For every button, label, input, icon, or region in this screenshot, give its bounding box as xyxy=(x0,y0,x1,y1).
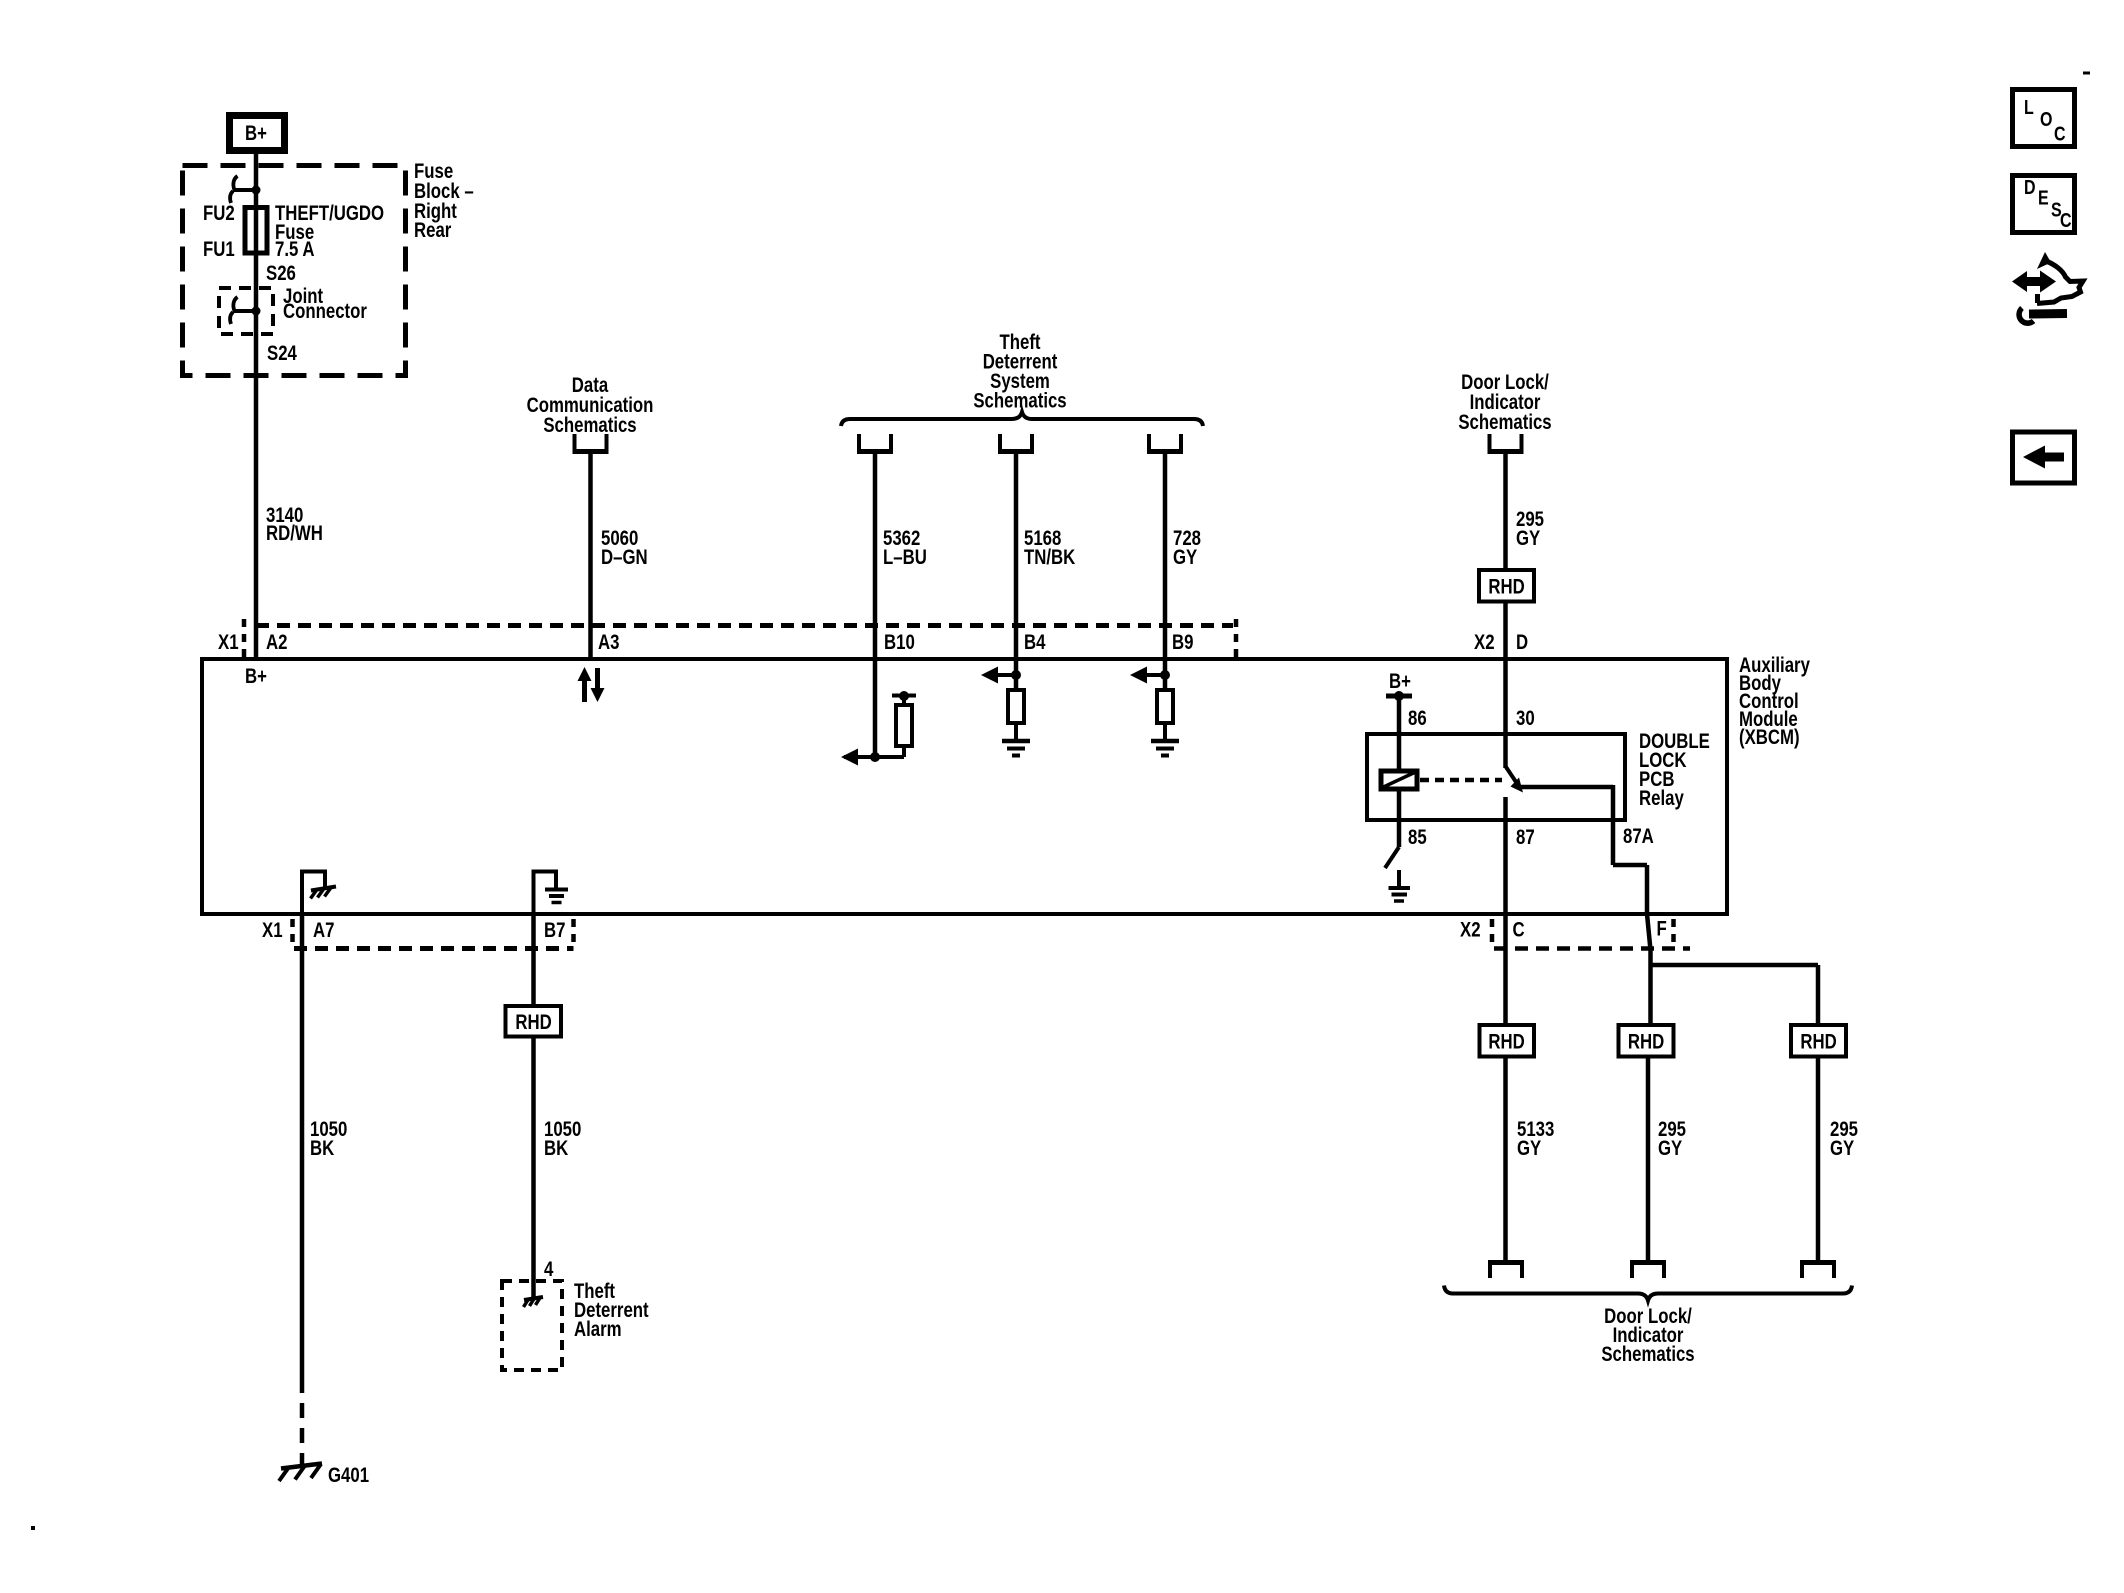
svg-text:A7: A7 xyxy=(313,919,334,942)
svg-text:RHD: RHD xyxy=(1488,1031,1524,1054)
svg-text:GY: GY xyxy=(1173,546,1198,569)
svg-text:Relay: Relay xyxy=(1639,787,1684,810)
svg-text:85: 85 xyxy=(1408,826,1427,849)
svg-text:Schematics: Schematics xyxy=(1601,1343,1694,1366)
svg-text:TN/BK: TN/BK xyxy=(1024,546,1076,569)
svg-text:RHD: RHD xyxy=(1628,1031,1664,1054)
svg-text:X1: X1 xyxy=(218,631,239,654)
svg-text:A3: A3 xyxy=(598,631,619,654)
svg-text:X2: X2 xyxy=(1474,631,1495,654)
svg-text:87A: 87A xyxy=(1623,825,1654,848)
svg-text:Schematics: Schematics xyxy=(543,414,636,437)
svg-text:O: O xyxy=(2040,108,2052,130)
svg-text:L–BU: L–BU xyxy=(883,546,927,569)
svg-text:FU1: FU1 xyxy=(203,238,235,261)
svg-text:F: F xyxy=(1657,918,1667,941)
svg-text:FU2: FU2 xyxy=(203,202,235,225)
svg-text:X1: X1 xyxy=(262,919,283,942)
svg-text:C: C xyxy=(1513,919,1525,942)
svg-text:Connector: Connector xyxy=(283,300,367,323)
svg-text:GY: GY xyxy=(1517,1137,1542,1160)
svg-text:RHD: RHD xyxy=(515,1011,551,1034)
svg-text:A2: A2 xyxy=(266,631,287,654)
svg-text:B10: B10 xyxy=(884,631,915,654)
svg-text:RD/WH: RD/WH xyxy=(266,522,323,545)
svg-text:GY: GY xyxy=(1516,527,1541,550)
svg-text:S24: S24 xyxy=(267,342,297,365)
svg-text:B+: B+ xyxy=(245,665,267,688)
svg-text:G401: G401 xyxy=(328,1464,369,1487)
svg-text:D: D xyxy=(1516,631,1528,654)
svg-text:Schematics: Schematics xyxy=(1458,411,1551,434)
svg-text:L: L xyxy=(2024,96,2034,118)
svg-text:D–GN: D–GN xyxy=(601,546,648,569)
svg-text:86: 86 xyxy=(1408,707,1427,730)
svg-text:B7: B7 xyxy=(544,919,565,942)
svg-text:BK: BK xyxy=(544,1137,568,1160)
svg-text:E: E xyxy=(2038,187,2049,209)
svg-text:B+: B+ xyxy=(245,122,267,145)
svg-text:C: C xyxy=(2060,209,2072,231)
svg-text:D: D xyxy=(2024,176,2036,198)
svg-text:B9: B9 xyxy=(1172,631,1193,654)
svg-text:(XBCM): (XBCM) xyxy=(1739,726,1800,749)
svg-text:B4: B4 xyxy=(1024,631,1046,654)
svg-text:GY: GY xyxy=(1658,1137,1683,1160)
svg-text:RHD: RHD xyxy=(1488,576,1524,599)
svg-text:GY: GY xyxy=(1830,1137,1855,1160)
svg-text:7.5 A: 7.5 A xyxy=(275,238,315,261)
svg-text:RHD: RHD xyxy=(1800,1031,1836,1054)
svg-text:30: 30 xyxy=(1516,707,1535,730)
svg-text:Rear: Rear xyxy=(414,219,452,242)
svg-text:X2: X2 xyxy=(1460,919,1481,942)
svg-text:4: 4 xyxy=(544,1258,554,1281)
svg-text:87: 87 xyxy=(1516,826,1535,849)
svg-text:Alarm: Alarm xyxy=(574,1318,622,1341)
svg-text:Schematics: Schematics xyxy=(973,390,1066,413)
svg-text:BK: BK xyxy=(310,1137,334,1160)
svg-text:B+: B+ xyxy=(1389,670,1411,693)
svg-text:C: C xyxy=(2054,123,2066,145)
svg-text:S26: S26 xyxy=(266,262,296,285)
